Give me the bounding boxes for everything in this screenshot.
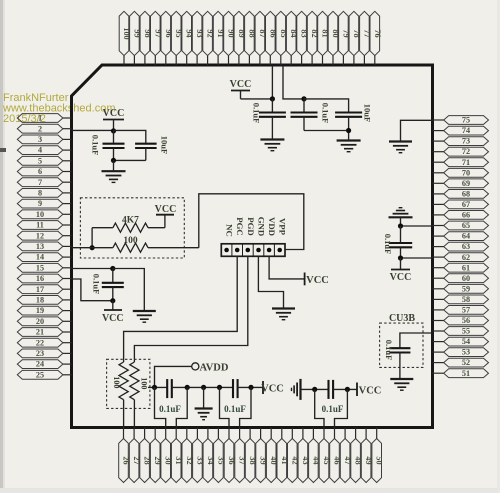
pin 96 [161, 11, 173, 65]
dashed box (MCLR resistors) [80, 198, 184, 258]
pin 58 [433, 295, 489, 304]
pin 73 [433, 137, 489, 146]
capacitor C3 0.1uF [259, 99, 286, 139]
wire PGC to R3 [124, 256, 238, 362]
wire rail mid [172, 386, 233, 388]
svg-text:67: 67 [462, 200, 470, 209]
pin 85 [276, 11, 288, 65]
pin 64 [433, 232, 489, 241]
svg-text:0.1uF: 0.1uF [383, 234, 393, 255]
wire node to pin65 [401, 225, 433, 227]
svg-text:63: 63 [462, 242, 470, 251]
svg-text:1: 1 [38, 114, 42, 123]
svg-text:21: 21 [36, 328, 44, 337]
pin 72 [433, 147, 489, 156]
svg-text:VCC: VCC [155, 204, 177, 215]
pin 88 [245, 11, 257, 65]
svg-text:19: 19 [36, 306, 44, 315]
pin 94 [182, 11, 194, 65]
pin 55 [433, 327, 489, 336]
VCC symbol (AVDD rail) [261, 381, 284, 395]
wire MCLR loop to VPP [199, 194, 304, 250]
svg-text:6: 6 [38, 167, 42, 176]
wire node to VCC [333, 388, 357, 390]
wire leg to pin46 [335, 389, 348, 427]
pin 13 [17, 242, 71, 251]
svg-text:CU3B: CU3B [389, 313, 415, 324]
ground (top-right) [389, 140, 412, 142]
capacitor C9 0.1uF [232, 379, 234, 398]
pin 31 [171, 428, 183, 483]
connector J1 ICSP header [221, 244, 285, 256]
svg-text:20: 20 [36, 317, 44, 326]
wire cap bottoms join [114, 159, 146, 161]
svg-text:VDD: VDD [267, 217, 277, 236]
svg-text:15: 15 [36, 263, 44, 272]
svg-text:70: 70 [462, 168, 470, 177]
pin 3 [17, 135, 71, 144]
ground (top-left) [102, 170, 126, 172]
svg-text:50: 50 [375, 456, 384, 464]
svg-text:PGC: PGC [235, 217, 245, 236]
wire rail left [148, 386, 167, 388]
capacitor C8 0.1uF [166, 379, 168, 398]
pin 6 [17, 167, 71, 176]
AVDD terminal circle [192, 363, 199, 370]
resistor R4 100 [130, 362, 139, 428]
pin 87 [255, 11, 267, 65]
pin 99 [130, 11, 142, 65]
ground (rotated, bottom) [299, 379, 301, 400]
wire leg to pin31 [176, 387, 187, 427]
ground (under C3) [260, 138, 284, 140]
node junction [217, 385, 222, 390]
pin 33 [193, 428, 205, 483]
node junction [110, 266, 115, 271]
pin 81 [318, 11, 330, 65]
VCC symbol (left-middle) [102, 301, 124, 324]
wire C4 bottom to C5 bottom [304, 130, 349, 132]
pin 26 [119, 428, 131, 483]
svg-text:0.1uF: 0.1uF [91, 135, 101, 156]
svg-text:53: 53 [462, 348, 470, 357]
wire node B to C5 [304, 99, 349, 113]
wire node to ground [113, 269, 145, 311]
svg-text:58: 58 [462, 295, 470, 304]
svg-text:13: 13 [36, 242, 44, 251]
pin 22 [17, 338, 71, 347]
pin 9 [17, 199, 71, 208]
pin 44 [309, 428, 321, 483]
svg-text:66: 66 [462, 211, 470, 220]
pin 78 [349, 11, 361, 65]
wire rail right [238, 386, 263, 388]
svg-text:23: 23 [36, 349, 44, 358]
pin 36 [224, 428, 236, 483]
pin 41 [277, 428, 289, 483]
pin 86 [266, 11, 278, 65]
VCC symbol (top-left) [103, 108, 125, 130]
pin 53 [433, 348, 489, 357]
svg-text:57: 57 [462, 306, 470, 315]
pin 63 [433, 242, 489, 251]
pin 89 [234, 11, 246, 65]
node junction [152, 385, 157, 390]
pin 68 [433, 190, 489, 199]
svg-text:0.1uF: 0.1uF [321, 103, 331, 124]
svg-text:3: 3 [38, 135, 42, 144]
pin 18 [17, 296, 71, 305]
pin 35 [214, 428, 226, 483]
pin 48 [351, 428, 363, 483]
svg-text:5: 5 [38, 156, 42, 165]
pin 90 [224, 11, 236, 65]
pin 54 [433, 337, 489, 346]
ground (ICSP) [272, 307, 295, 309]
pin 7 [17, 178, 71, 187]
VCC symbol (ICSP VDD) [305, 273, 329, 287]
pin 38 [245, 428, 257, 483]
pin 25 [17, 370, 71, 379]
pin 57 [433, 306, 489, 315]
pin 19 [17, 306, 71, 315]
pin 52 [433, 358, 489, 367]
pin 93 [192, 11, 204, 65]
wire R1 to R2 [91, 228, 93, 248]
svg-text:69: 69 [462, 179, 470, 188]
svg-text:73: 73 [462, 137, 470, 146]
pin 32 [182, 428, 194, 483]
pin 30 [161, 428, 173, 483]
wire ground to node [400, 217, 402, 226]
wire leg to pin30 [155, 387, 166, 427]
wire pin feed 2 from top edge [283, 65, 304, 99]
svg-text:AVDD: AVDD [200, 363, 229, 374]
svg-text:54: 54 [462, 337, 470, 346]
svg-text:0.1uF: 0.1uF [159, 404, 181, 414]
node junction [110, 298, 115, 303]
capacitor C1 0.1uF [103, 130, 125, 160]
pin 47 [340, 428, 352, 483]
svg-text:12: 12 [36, 231, 44, 240]
VCC symbol (right-middle) [390, 258, 412, 283]
resistor R3 100 [119, 362, 128, 428]
pin 37 [235, 428, 247, 483]
capacitor C6 0.1uF [389, 226, 412, 258]
resistor R2 100 [92, 243, 199, 252]
svg-text:25: 25 [36, 370, 44, 379]
pin 24 [17, 360, 71, 369]
node A junction [270, 96, 275, 101]
node MCLR junction [90, 245, 95, 250]
pin 82 [307, 11, 319, 65]
pin 67 [433, 200, 489, 209]
capacitor C4 0.1uF [291, 99, 318, 131]
node junction [111, 158, 116, 163]
svg-text:0.1uF: 0.1uF [224, 404, 246, 414]
svg-text:17: 17 [36, 285, 44, 294]
IC U1 outline (100-pin QFP) [72, 65, 433, 428]
svg-text:22: 22 [36, 338, 44, 347]
svg-text:VCC: VCC [103, 108, 125, 119]
pin 79 [339, 11, 351, 65]
svg-text:68: 68 [462, 190, 470, 199]
pin 74 [433, 126, 489, 135]
pin 28 [140, 428, 152, 483]
node junction [185, 385, 190, 390]
pin 56 [433, 316, 489, 325]
svg-text:100: 100 [140, 377, 149, 389]
pin 65 [433, 221, 489, 230]
pin 75 [433, 116, 489, 125]
svg-text:51: 51 [462, 369, 470, 378]
pin 100 [119, 11, 131, 65]
ground (CU3B) [390, 378, 413, 380]
svg-text:0.1uF: 0.1uF [252, 103, 262, 124]
svg-text:52: 52 [462, 358, 470, 367]
pin 59 [433, 284, 489, 293]
svg-text:VCC: VCC [102, 313, 124, 324]
wire node to C2 branch [114, 130, 146, 143]
node AVDD tap [155, 366, 192, 387]
node junction [346, 128, 351, 133]
node junction [398, 223, 403, 228]
svg-text:VPP: VPP [278, 218, 288, 236]
svg-text:0.1uF: 0.1uF [322, 404, 344, 414]
wire VCC to node A [241, 98, 273, 100]
pin 11 [17, 221, 71, 230]
pin 97 [151, 11, 163, 65]
resistor R1 4K7 [92, 223, 165, 232]
svg-text:10uF: 10uF [363, 104, 373, 122]
wire pin55 to C11 [400, 333, 433, 348]
svg-text:71: 71 [462, 158, 470, 167]
svg-text:VCC: VCC [359, 386, 382, 397]
pin 16 [17, 274, 71, 283]
svg-text:16: 16 [36, 274, 44, 283]
svg-text:75: 75 [462, 116, 470, 125]
svg-text:76: 76 [373, 29, 382, 37]
pin 23 [17, 349, 71, 358]
svg-text:8: 8 [38, 189, 42, 198]
pin 40 [266, 428, 278, 483]
pin 5 [17, 156, 71, 165]
wire PGD to R4 [134, 256, 247, 362]
pin 21 [17, 328, 71, 337]
pin 45 [319, 428, 331, 483]
pin 39 [256, 428, 268, 483]
pin 66 [433, 211, 489, 220]
pin 12 [17, 231, 71, 240]
svg-text:11: 11 [36, 221, 44, 230]
wire pin2 to node [72, 129, 114, 131]
pin 29 [150, 428, 162, 483]
ground (left-middle) [133, 310, 156, 312]
node junction [398, 255, 403, 260]
capacitor C5 10uF [335, 113, 362, 141]
wire pin75 to ground [401, 120, 433, 141]
svg-text:60: 60 [462, 274, 470, 283]
wire leg to pin36 [220, 387, 230, 427]
svg-text:9: 9 [38, 199, 42, 208]
svg-text:18: 18 [36, 296, 44, 305]
svg-text:VCC: VCC [230, 79, 252, 90]
pin 70 [433, 168, 489, 177]
svg-text:59: 59 [462, 284, 470, 293]
node junction [312, 387, 317, 392]
pin 98 [140, 11, 152, 65]
capacitor C7 0.1uF [102, 269, 124, 301]
svg-text:65: 65 [462, 221, 470, 230]
pin 10 [17, 210, 71, 219]
VCC symbol (R1) [155, 204, 177, 228]
pin 1 [17, 114, 71, 123]
watermark text [2, 92, 116, 125]
pin 49 [361, 428, 373, 483]
pin 80 [328, 11, 340, 65]
svg-text:61: 61 [462, 263, 470, 272]
pin 43 [298, 428, 310, 483]
svg-text:64: 64 [462, 232, 470, 241]
svg-text:74: 74 [462, 126, 470, 135]
capacitor C10 0.1uF [327, 380, 329, 399]
svg-text:10uF: 10uF [160, 136, 170, 154]
pin 61 [433, 263, 489, 272]
VCC symbol (bottom-right) [357, 383, 381, 397]
wire pin15 to node [72, 268, 113, 270]
pin 77 [360, 11, 372, 65]
pin 62 [433, 253, 489, 262]
pin 91 [213, 11, 225, 65]
svg-text:4: 4 [38, 146, 42, 155]
svg-text:VCC: VCC [261, 384, 284, 395]
capacitor C11 0.1uF [389, 348, 410, 378]
wire node to pin62 [401, 257, 433, 259]
pin 34 [203, 428, 215, 483]
pin 2 [17, 124, 71, 133]
pin 92 [203, 11, 215, 65]
svg-text:NC: NC [225, 224, 235, 237]
svg-text:0.1uF: 0.1uF [92, 274, 102, 295]
pin 84 [286, 11, 298, 65]
pin 51 [433, 369, 489, 378]
pin 8 [17, 189, 71, 198]
wire leg to pin45 [315, 389, 324, 427]
svg-text:7: 7 [38, 178, 42, 187]
svg-text:2: 2 [38, 124, 42, 133]
dashed box (series resistors) [107, 359, 150, 408]
svg-text:55: 55 [462, 327, 470, 336]
pin 50 [372, 428, 384, 483]
pin 20 [17, 317, 71, 326]
pin 71 [433, 158, 489, 167]
svg-text:VCC: VCC [390, 272, 412, 283]
pin 4 [17, 146, 71, 155]
pin 17 [17, 285, 71, 294]
wire pin16 to C7 bottom [72, 279, 113, 301]
pin 27 [129, 428, 141, 483]
wire GND pin to ground [258, 256, 283, 308]
svg-text:VCC: VCC [306, 275, 329, 286]
pin 83 [297, 11, 309, 65]
node junction [345, 387, 350, 392]
pin 95 [171, 11, 183, 65]
wire pin13 to MCLR node [72, 247, 93, 249]
dashed box CU3B [380, 323, 423, 367]
wire leg to pin37 [240, 387, 251, 427]
svg-text:62: 62 [462, 253, 470, 262]
svg-text:56: 56 [462, 316, 470, 325]
ground (AVDD) [195, 407, 213, 409]
pin 14 [17, 253, 71, 262]
svg-text:GND: GND [256, 217, 266, 237]
node B junction [301, 96, 306, 101]
svg-text:14: 14 [36, 253, 44, 262]
node junction [111, 128, 116, 133]
node junction [201, 385, 206, 390]
svg-text:24: 24 [36, 360, 44, 369]
inverted ground (right-middle) [389, 216, 413, 218]
pin 46 [330, 428, 342, 483]
VCC symbol (top-middle) [230, 79, 252, 99]
wire pin feed from top edge [271, 65, 273, 99]
node junction [248, 385, 253, 390]
pin 15 [17, 263, 71, 272]
pin 69 [433, 179, 489, 188]
svg-text:10: 10 [36, 210, 44, 219]
pin 60 [433, 274, 489, 283]
pin 42 [288, 428, 300, 483]
wire ground to node [301, 388, 329, 390]
wire to ground [203, 387, 205, 408]
wire to ground [113, 160, 115, 170]
capacitor C2 10uF [135, 144, 157, 161]
pin 76 [370, 11, 382, 65]
ground (under C5) [337, 139, 361, 141]
wire VDD pin to VCC [269, 256, 305, 279]
svg-text:0.1uF: 0.1uF [384, 340, 394, 361]
svg-text:72: 72 [462, 147, 470, 156]
svg-text:PGD: PGD [246, 217, 256, 236]
